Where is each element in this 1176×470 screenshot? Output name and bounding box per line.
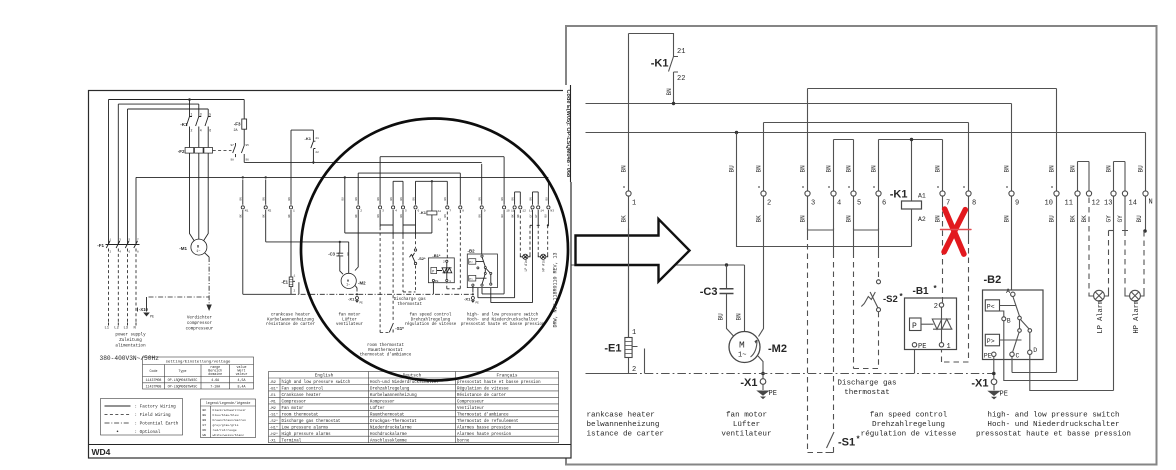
mini X1 B2 [472, 286, 474, 292]
svg-text:BK: BK [517, 214, 520, 218]
svg-text:8,4A: 8,4A [238, 384, 246, 388]
motor -M2 [729, 332, 760, 363]
svg-text:2: 2 [934, 303, 938, 311]
svg-text:BN: BN [846, 215, 853, 223]
svg-text:Zuleitung: Zuleitung [119, 338, 142, 343]
svg-text:legend/Legende/légende: legend/Legende/légende [206, 401, 251, 406]
wire join 3-4 [808, 228, 834, 230]
svg-text:BN: BN [736, 313, 743, 321]
zoom detail page frame [566, 26, 1157, 465]
svg-text:GY: GY [203, 423, 207, 427]
svg-text:6: 6 [209, 129, 211, 133]
svg-text:96: 96 [246, 159, 250, 162]
svg-text:Thermostat de refoulement: Thermostat de refoulement [457, 419, 519, 424]
svg-text:BU: BU [501, 214, 504, 218]
svg-text:-X1: -X1 [971, 377, 988, 389]
fuse -F3 [243, 100, 245, 144]
switch -S1 room thermostat [826, 432, 835, 453]
mini wire 14 to HP lamp [537, 210, 540, 225]
switch -F1 [106, 244, 140, 246]
fan speed controller -B1 [905, 298, 957, 350]
contact -K1 blade [669, 57, 674, 72]
wire B2-C route to 10 [1012, 357, 1057, 373]
wire 1 vertical BK [628, 34, 630, 338]
svg-text:Alarmes basse pression: Alarmes basse pression [457, 425, 512, 430]
bus line 2 [567, 132, 1146, 134]
svg-text:2: 2 [767, 200, 771, 208]
svg-text:-H2*: -H2* [269, 432, 278, 437]
svg-text:-K1: -K1 [180, 122, 188, 127]
svg-text:95: 95 [246, 144, 250, 147]
svg-text:HP Alarm: HP Alarm [542, 256, 546, 271]
svg-text:PE: PE [918, 343, 926, 351]
code label strip over panel edge [563, 85, 586, 182]
svg-text:BU: BU [1136, 215, 1143, 223]
svg-text:11437M08: 11437M08 [146, 384, 162, 388]
svg-text:-H1*: -H1* [269, 425, 278, 430]
svg-text:PE: PE [769, 390, 777, 398]
svg-text:-B1*: -B1* [269, 387, 278, 392]
potential earth dash-dot line [629, 373, 994, 375]
drawing sheet WD4 [89, 91, 572, 459]
svg-text:Lüfter: Lüfter [370, 406, 385, 411]
svg-text:Hochdruckalarme: Hochdruckalarme [370, 432, 407, 437]
svg-text:: Field Wiring: : Field Wiring [135, 413, 172, 418]
wire BN to motor [744, 265, 746, 332]
svg-text:M2: M2 [268, 210, 272, 213]
wire N to HP lamp [1145, 196, 1147, 231]
mini bus 2 [136, 176, 548, 178]
svg-text:BN: BN [1070, 165, 1077, 173]
wire 5 mid [853, 196, 855, 252]
svg-text:5: 5 [857, 200, 861, 208]
svg-text:OP-LSQM048TW4SC: OP-LSQM048TW4SC [168, 378, 198, 382]
svg-text:7: 7 [449, 210, 451, 213]
mini wire M feed 2 [266, 180, 349, 242]
svg-text:fan speed control: fan speed control [410, 313, 452, 318]
svg-text:Kompressor: Kompressor [370, 401, 395, 405]
svg-text:Drehzahlregelung: Drehzahlregelung [872, 421, 945, 429]
svg-text:BK: BK [240, 214, 243, 218]
wire join 5-6 [854, 228, 879, 230]
svg-text:GY: GY [535, 214, 538, 218]
mini wire 9 [481, 164, 483, 254]
svg-text:-X1: -X1 [740, 377, 757, 389]
svg-text:Type: Type [179, 369, 187, 373]
svg-text:Code: Code [150, 369, 158, 373]
mini capacitor C3 [339, 241, 341, 243]
wire 4 mid [833, 196, 835, 252]
svg-text:Low pressure alarms: Low pressure alarms [282, 425, 329, 430]
svg-text:8: 8 [462, 210, 464, 213]
svg-text:9: 9 [484, 210, 486, 213]
svg-text:2: 2 [360, 210, 362, 213]
svg-text:LP Alarm: LP Alarm [1097, 300, 1105, 334]
svg-text:Drehzahlregelung: Drehzahlregelung [411, 317, 451, 322]
wire motor to X1 [758, 356, 763, 379]
svg-text:high- and low pressure switch: high- and low pressure switch [467, 313, 539, 318]
wire BU branch to A2 [737, 133, 912, 247]
mini wire 6 + S2 [415, 181, 417, 236]
svg-text:1: 1 [191, 113, 193, 117]
terminal -X1 (B2) [991, 379, 997, 385]
svg-text:BN: BN [1106, 165, 1113, 173]
mini wire 7 [446, 212, 448, 258]
wire 8 dashed to B1-1 [942, 239, 969, 363]
mini wire 4 [392, 181, 394, 236]
svg-text:1: 1 [449, 280, 451, 283]
wire neutral feeder [135, 177, 137, 244]
svg-text:P>: P> [469, 277, 473, 281]
svg-text:BN: BN [756, 165, 763, 173]
wire supply dashed L2 [117, 249, 119, 323]
svg-text:BK: BK [512, 214, 515, 218]
wire B2-D route to 13 [1030, 355, 1114, 391]
svg-text:-X1: -X1 [269, 439, 276, 443]
svg-text:Kurbelwannenheizung: Kurbelwannenheizung [370, 393, 417, 398]
svg-text:Régulation de vitesse: Régulation de vitesse [457, 387, 509, 392]
svg-text:blue/blau/bleu: blue/blau/bleu [213, 413, 239, 417]
mini wire 5 [402, 181, 404, 236]
svg-text:L2: L2 [114, 327, 119, 331]
pressure switch -B2 [983, 290, 1044, 360]
wire 14 to HP lamp [1122, 196, 1128, 230]
svg-text:14: 14 [540, 210, 544, 213]
svg-text:grey/grau/gris: grey/grau/gris [213, 423, 239, 427]
svg-text:5: 5 [209, 113, 211, 117]
wire B2 PE to X1 [993, 357, 995, 380]
svg-text:Fan motor: Fan motor [282, 407, 305, 411]
svg-text:BN: BN [871, 165, 878, 173]
wire phase L2 feeder [118, 104, 199, 244]
svg-text:2: 2 [632, 366, 636, 374]
wire 13 [1113, 196, 1115, 390]
svg-text:BK: BK [355, 214, 358, 218]
svg-text:régulation de vitesse: régulation de vitesse [861, 431, 957, 439]
svg-text:DRW, NIY-118R0110 REV, 13: DRW, NIY-118R0110 REV, 13 [553, 252, 559, 327]
terminal -X1 (motor) [760, 379, 766, 385]
mini wire 2 to motor [355, 210, 358, 292]
svg-text:BN: BN [479, 214, 482, 218]
svg-text:-C3: -C3 [328, 252, 335, 257]
wire supply dashed N [135, 249, 137, 323]
svg-text:Fan speed control: Fan speed control [282, 387, 324, 392]
svg-text:BK: BK [203, 408, 207, 412]
highlight ellipse [301, 119, 568, 381]
svg-text:P: P [912, 322, 917, 331]
sheet inner bottom rule [89, 444, 572, 446]
mini lamp HP [541, 254, 546, 259]
svg-text:: Potential Earth: : Potential Earth [135, 422, 179, 427]
svg-text:Compressor: Compressor [282, 401, 307, 405]
svg-text:-K1: -K1 [305, 136, 312, 141]
svg-text:thermostat d'ambiance: thermostat d'ambiance [360, 353, 412, 358]
svg-text:-K1: -K1 [651, 58, 669, 70]
mini lamp LP [523, 254, 528, 259]
svg-text:22: 22 [315, 151, 319, 154]
wire 2 BK [759, 123, 764, 337]
svg-text:setting/Einstellung/voltage: setting/Einstellung/voltage [166, 360, 231, 365]
wire 3 dashed to S1 [808, 235, 826, 453]
wire 7 dashed to B1-2 [942, 212, 944, 303]
svg-text:-M2: -M2 [269, 407, 276, 411]
svg-text:1~: 1~ [738, 352, 746, 360]
wire coil A2 lead [911, 209, 913, 247]
svg-text:BN: BN [288, 197, 291, 201]
svg-text:BU: BU [203, 413, 207, 417]
svg-text:PE: PE [1000, 391, 1008, 399]
svg-text:Discharge gas thermostat: Discharge gas thermostat [282, 419, 342, 424]
svg-text:GY: GY [529, 214, 532, 218]
svg-text:PE: PE [150, 316, 154, 320]
svg-text:-F3: -F3 [234, 122, 241, 127]
svg-text:6: 6 [418, 210, 420, 213]
mini S1 [389, 323, 393, 333]
wire 7 stub [942, 196, 944, 209]
svg-text:9: 9 [1015, 200, 1019, 208]
svg-text:3: 3 [382, 210, 384, 213]
svg-text:brown/braun/marron: brown/braun/marron [213, 418, 247, 422]
node F3 tap junction [188, 98, 191, 101]
terminal circles row [626, 191, 1148, 196]
svg-text:BN: BN [1004, 165, 1011, 173]
svg-text:compresseur: compresseur [186, 328, 214, 332]
mini motor M2 [348, 242, 350, 274]
wire loop 13-14 [1114, 162, 1126, 191]
mini bus 1 [244, 161, 482, 163]
wire motor feed horizontal [567, 264, 745, 266]
contact -K1 21/22 loop wire [629, 34, 679, 104]
wire 3 top [807, 89, 809, 191]
wire 5 dashed [854, 253, 879, 369]
wire 11 [1077, 196, 1079, 380]
svg-text:Résistance de carter: Résistance de carter [457, 393, 507, 398]
svg-text:BN: BN [444, 197, 447, 201]
svg-text:BU: BU [718, 313, 725, 321]
svg-text:PE: PE [476, 302, 480, 305]
svg-text:-X1: -X1 [464, 297, 471, 302]
svg-text:thermostat: thermostat [844, 389, 890, 397]
svg-text:11: 11 [511, 210, 515, 213]
svg-text:Hoch- und Niederdruckschalter: Hoch- und Niederdruckschalter [467, 317, 539, 322]
svg-text:3: 3 [811, 200, 815, 208]
svg-text:Code E(W05): OP-LSQM048 - 068: Code E(W05): OP-LSQM048 - 068 [565, 90, 571, 178]
svg-text:A2: A2 [438, 219, 442, 222]
relay coil -K1 [902, 201, 922, 209]
svg-text:BN: BN [444, 214, 447, 218]
svg-text:98: 98 [231, 159, 235, 162]
node motor PE junction [761, 372, 765, 376]
zoom arrow [576, 219, 690, 338]
bus line 4 [764, 122, 969, 124]
label Verdichter compressor [186, 316, 214, 332]
svg-text:thermostat: thermostat [397, 302, 422, 307]
svg-text:L3: L3 [124, 327, 129, 331]
svg-text:-X1: -X1 [348, 297, 355, 302]
wire E1 side tap [632, 347, 644, 374]
capacitor -C3 [727, 265, 734, 336]
potential earth drop M1 [208, 257, 210, 305]
svg-text:P<: P< [469, 260, 473, 264]
svg-text:10: 10 [1045, 200, 1053, 208]
svg-text:-E1: -E1 [269, 394, 276, 398]
svg-text:BN: BN [263, 197, 266, 201]
svg-text:8: 8 [972, 200, 976, 208]
svg-text:Niederdruckalarme: Niederdruckalarme [370, 425, 412, 430]
mini terminal X1 motor [356, 297, 359, 300]
svg-text:power supply: power supply [115, 333, 146, 338]
svg-text:High pressure alarms: High pressure alarms [282, 432, 332, 437]
svg-text:Discharge gas: Discharge gas [837, 380, 896, 388]
mini B2 [467, 254, 497, 288]
node C3 junction [725, 263, 728, 266]
svg-text:LP Alarm: LP Alarm [524, 256, 528, 271]
svg-text:7-10A: 7-10A [210, 384, 220, 388]
wire loop terminals 6-K1-7 [879, 140, 943, 202]
overload -F2 [185, 148, 194, 154]
svg-text:A1: A1 [438, 210, 442, 213]
svg-text:BN: BN [400, 214, 403, 218]
svg-text:1: 1 [947, 343, 951, 351]
label power supply [115, 333, 146, 349]
svg-text:13: 13 [529, 210, 533, 213]
svg-text:21: 21 [677, 48, 685, 56]
svg-text:Raumthermostat: Raumthermostat [370, 412, 405, 417]
lamp HP Alarm [1130, 290, 1141, 301]
mini wire colour labels [240, 197, 549, 256]
svg-text:WH: WH [203, 433, 207, 437]
bus line 3 [808, 88, 1057, 90]
red X deletion mark [941, 209, 972, 254]
mini wire M feed 1 [242, 180, 244, 295]
svg-text:C: C [1016, 353, 1020, 360]
mini bus 4 [358, 173, 460, 205]
svg-text:2: 2 [191, 129, 193, 133]
svg-text:fan motor: fan motor [726, 412, 767, 420]
svg-text:: Optional: : Optional [135, 430, 161, 435]
svg-text:-S1*: -S1* [395, 326, 404, 331]
svg-text:BU: BU [1138, 165, 1145, 173]
terminal number labels [632, 199, 1153, 208]
svg-text:istance de carter: istance de carter [587, 431, 664, 439]
svg-text:BN: BN [501, 197, 504, 201]
svg-text:-B2: -B2 [468, 249, 476, 254]
svg-text:1~: 1~ [346, 283, 350, 287]
svg-text:rankcase heater: rankcase heater [587, 412, 655, 420]
svg-text:régulation de vitesse: régulation de vitesse [405, 322, 457, 327]
node coil A1 junction [910, 138, 913, 141]
svg-text:Druckgas-Thermostat: Druckgas-Thermostat [370, 419, 417, 424]
terminal -X10 [138, 297, 147, 312]
svg-text:-S1: -S1 [838, 437, 855, 449]
svg-text:BN: BN [529, 197, 532, 201]
wire 13 branch to LP lamp [1109, 230, 1114, 232]
mini wire N [547, 180, 549, 226]
svg-text:Verdichter: Verdichter [187, 316, 213, 321]
svg-text:N: N [1149, 199, 1153, 207]
svg-text:BU: BU [342, 197, 345, 201]
svg-text:1: 1 [294, 274, 296, 277]
wire loop 11-12 [1078, 162, 1090, 191]
heater -E1 [628, 337, 630, 374]
svg-text:4: 4 [200, 129, 202, 133]
svg-text:Anschlussklemme: Anschlussklemme [370, 438, 407, 443]
svg-text:Hoch- und Niederdruckschalter: Hoch- und Niederdruckschalter [987, 421, 1119, 429]
mini bus 3 [380, 157, 504, 205]
terminal marker dots [623, 186, 1053, 188]
svg-text:-S2*: -S2* [418, 256, 426, 261]
mini potential earth line [291, 293, 473, 295]
mini wire 3 [379, 210, 381, 227]
svg-text:2: 2 [443, 261, 445, 264]
svg-text:BN: BN [400, 197, 403, 201]
svg-text:A2: A2 [918, 216, 926, 223]
mini join 3-4 5-6 [380, 224, 415, 226]
svg-text:Compresseur: Compresseur [457, 401, 485, 405]
svg-text:high and low pressure switch: high and low pressure switch [282, 380, 351, 385]
svg-text:4: 4 [395, 210, 397, 213]
svg-text:pressostat haute et basse pres: pressostat haute et basse pression [461, 322, 545, 327]
svg-text:BN: BN [512, 197, 515, 201]
component name texts bottom [587, 380, 1131, 439]
svg-text:-B2: -B2 [984, 274, 1002, 286]
wire loop terminals 4-5 [834, 140, 854, 191]
svg-text:12: 12 [1092, 200, 1100, 208]
wire colour labels lower [621, 215, 1143, 321]
wire E1 bottom left [586, 373, 629, 375]
svg-text:BN: BN [621, 165, 628, 173]
mini terminal numbers [245, 210, 554, 213]
wire 6 mid [878, 196, 880, 252]
svg-text:-X10: -X10 [139, 307, 149, 312]
auxiliary contacts 95-96 97-98 [213, 150, 232, 152]
svg-text:1: 1 [632, 200, 636, 208]
svg-text:M: M [739, 340, 745, 351]
svg-text:BN: BN [935, 215, 942, 223]
svg-text:pressostat haute et basse pres: pressostat haute et basse pression [976, 431, 1131, 439]
svg-text:6: 6 [882, 200, 886, 208]
svg-text:borne: borne [457, 438, 470, 443]
svg-text:A: A [1006, 288, 1010, 295]
svg-text:BK: BK [1070, 215, 1077, 223]
svg-text:14: 14 [1129, 200, 1137, 208]
node BU branch junction [735, 131, 738, 134]
mini wire E1 bottom [243, 293, 291, 295]
svg-text:P<: P< [987, 303, 995, 310]
svg-text:-E1: -E1 [604, 343, 621, 355]
svg-text:-E1: -E1 [281, 280, 288, 285]
svg-text:HP Alarm: HP Alarm [1133, 300, 1141, 334]
wire supply dashed L1 [108, 249, 110, 323]
svg-text:Lüfter: Lüfter [733, 421, 760, 429]
svg-text:Thermostat d'ambiance: Thermostat d'ambiance [457, 412, 509, 417]
svg-text:4: 4 [837, 200, 841, 208]
code label placeholder [89, 91, 572, 459]
node B2 PE junction [992, 372, 996, 376]
svg-text:BN: BN [347, 252, 350, 256]
svg-text:1: 1 [293, 210, 295, 213]
svg-text:4-6A: 4-6A [211, 378, 219, 382]
wire 3 mid [807, 196, 809, 234]
svg-text:ventilateur: ventilateur [721, 431, 771, 439]
svg-text:-M1: -M1 [269, 401, 276, 405]
svg-text:-S2: -S2 [883, 294, 898, 305]
svg-text:Lüfter: Lüfter [342, 317, 357, 322]
svg-text:B: B [1007, 317, 1011, 324]
svg-text:-M1: -M1 [179, 246, 187, 251]
svg-text:BK: BK [756, 215, 763, 223]
svg-text:1: 1 [632, 329, 636, 337]
